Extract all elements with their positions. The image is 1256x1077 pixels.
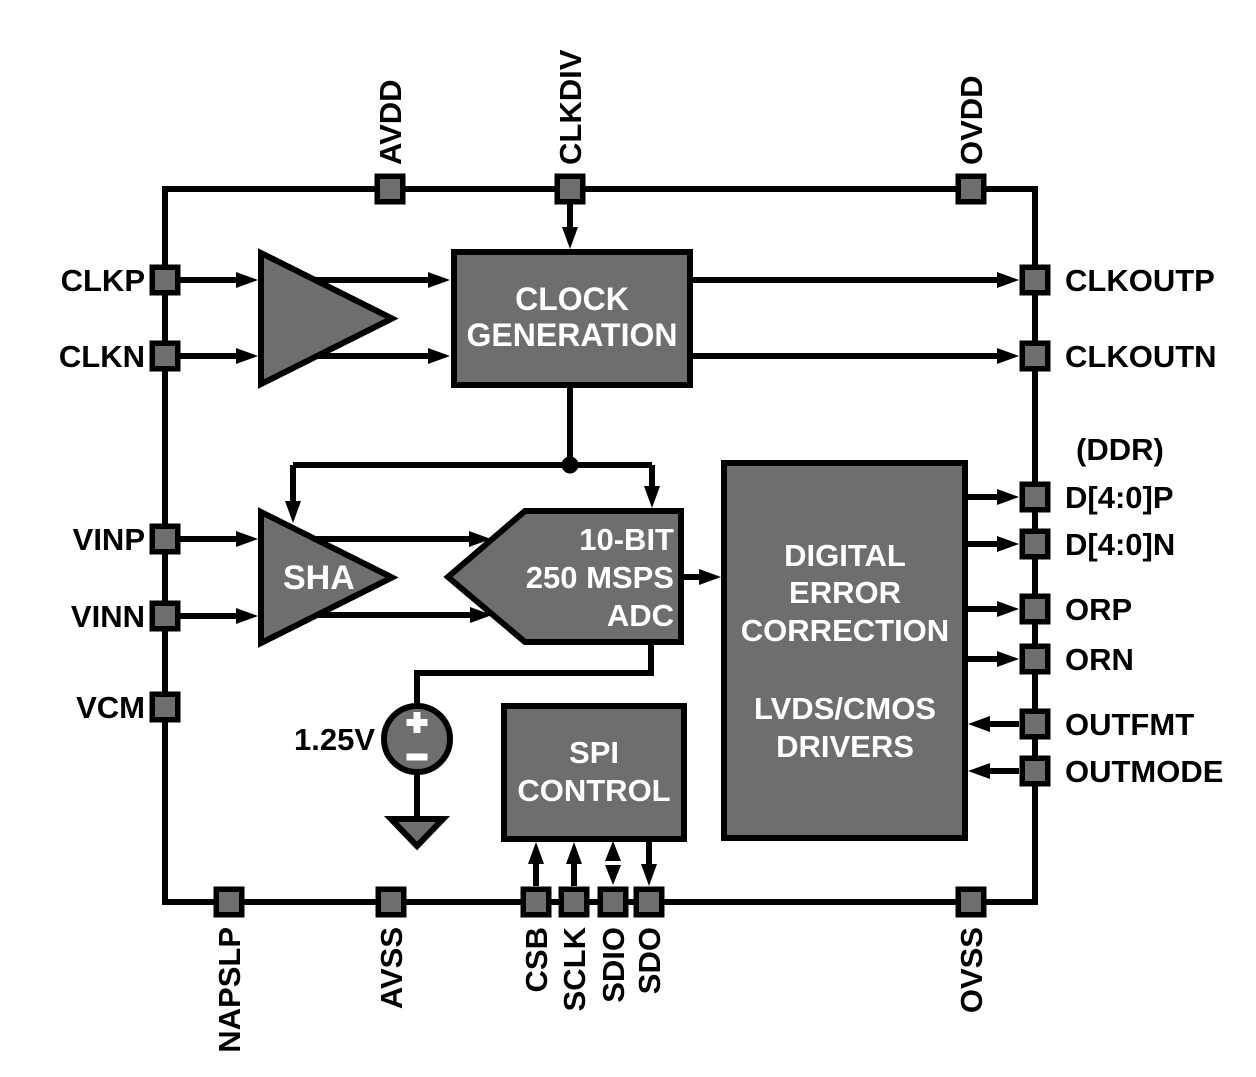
svg-text:AVSS: AVSS [374, 927, 409, 1009]
svg-text:ADC: ADC [607, 598, 674, 633]
pin SCLK [561, 889, 587, 915]
svg-text:CLOCK: CLOCK [515, 281, 629, 317]
svg-text:CLKDIV: CLKDIV [553, 49, 588, 165]
pin ORN [1022, 646, 1048, 672]
wire buffer to CLOCK GENERATION upper [315, 272, 450, 288]
wire DEC to ORP [968, 601, 1019, 617]
pin CLKOUTN [1022, 343, 1048, 369]
svg-text:VINP: VINP [73, 522, 145, 557]
svg-text:OVDD: OVDD [954, 75, 989, 165]
svg-text:CLKOUTN: CLKOUTN [1065, 339, 1217, 374]
svg-text:LVDS/CMOS: LVDS/CMOS [754, 691, 936, 726]
svg-text:CORRECTION: CORRECTION [741, 613, 949, 648]
pin AVDD [377, 176, 403, 202]
svg-text:10-BIT: 10-BIT [579, 522, 674, 557]
pin D[4:0]P [1022, 484, 1048, 510]
svg-text:ORP: ORP [1065, 592, 1132, 627]
svg-text:OUTMODE: OUTMODE [1065, 754, 1223, 789]
clock input buffer amplifier [261, 253, 392, 384]
svg-text:250 MSPS: 250 MSPS [526, 560, 674, 595]
wire DEC to D[4:0]N [968, 536, 1019, 552]
chip outline border [165, 189, 1035, 902]
svg-text:CONTROL: CONTROL [517, 773, 670, 808]
wire ADC to voltage source [417, 642, 651, 707]
svg-text:VCM: VCM [76, 690, 145, 725]
svg-text:D[4:0]N: D[4:0]N [1065, 527, 1175, 562]
svg-text:VINN: VINN [71, 599, 145, 634]
pin CLKDIV [557, 176, 583, 202]
svg-text:SDO: SDO [632, 927, 667, 994]
wire SCLK into SPI CONTROL [566, 842, 582, 886]
wire clock into ADC [644, 465, 660, 508]
svg-text:ERROR: ERROR [789, 575, 901, 610]
amplifier SHA [261, 512, 392, 643]
pin CLKOUTP [1022, 267, 1048, 293]
wire SPI CONTROL to SDO [641, 842, 657, 886]
pin VINN [152, 603, 178, 629]
wire CLKDIV into CLOCK GENERATION [562, 204, 578, 249]
block 10-BIT 250 MSPS ADC [448, 511, 681, 642]
pin CLKN [152, 343, 178, 369]
pin NAPSLP [216, 889, 242, 915]
block CLOCK GENERATION [454, 252, 690, 385]
pin OVSS [958, 889, 984, 915]
svg-text:NAPSLP: NAPSLP [212, 927, 247, 1053]
pin D[4:0]N [1022, 531, 1048, 557]
wire VINP to SHA [178, 531, 258, 547]
wire voltage source to ground [414, 772, 420, 820]
pin OVDD [958, 176, 984, 202]
svg-text:OVSS: OVSS [954, 927, 989, 1013]
wire CLOCK GENERATION to CLKOUTN [690, 348, 1019, 364]
svg-text:CLKP: CLKP [61, 263, 145, 298]
svg-text:SPI: SPI [569, 735, 619, 770]
svg-text:ORN: ORN [1065, 642, 1134, 677]
wire SHA to ADC upper [313, 531, 491, 547]
pin ORP [1022, 596, 1048, 622]
wire VINN to SHA [178, 608, 258, 624]
wire OUTFMT into DEC [968, 716, 1019, 732]
wire DEC to ORN [968, 651, 1019, 667]
wire CLOCK GENERATION to CLKOUTP [690, 272, 1019, 288]
svg-text:AVDD: AVDD [373, 79, 408, 165]
pin AVSS [378, 889, 404, 915]
svg-text:DIGITAL: DIGITAL [784, 538, 906, 573]
voltage source V1 1.25V [384, 706, 450, 772]
wire DEC to D[4:0]P [968, 489, 1019, 505]
svg-text:D[4:0]P: D[4:0]P [1065, 480, 1174, 515]
pin SDO [636, 889, 662, 915]
svg-text:1.25V: 1.25V [294, 722, 375, 757]
svg-text:SHA: SHA [283, 559, 355, 597]
wire ADC to DIGITAL ERROR CORRECTION [684, 569, 721, 585]
wire buffer to CLOCK GENERATION lower [317, 348, 450, 364]
wire clock into SHA [285, 465, 301, 523]
block SPI CONTROL [504, 706, 684, 839]
pin OUTFMT [1022, 711, 1048, 737]
wire CLKN to buffer [178, 348, 258, 364]
svg-text:CLKOUTP: CLKOUTP [1065, 263, 1215, 298]
wire SDIO bidirectional [605, 841, 621, 885]
pin VINP [152, 526, 178, 552]
pin CLKP [152, 267, 178, 293]
svg-text:SCLK: SCLK [557, 926, 592, 1011]
svg-text:CSB: CSB [519, 927, 554, 992]
svg-text:OUTFMT: OUTFMT [1065, 707, 1194, 742]
svg-text:GENERATION: GENERATION [467, 317, 678, 353]
svg-text:DRIVERS: DRIVERS [776, 729, 914, 764]
wire SHA to ADC lower [317, 607, 492, 623]
svg-text:SDIO: SDIO [596, 927, 631, 1003]
pin CSB [523, 889, 549, 915]
svg-text:CLKN: CLKN [59, 339, 145, 374]
pin OUTMODE [1022, 758, 1048, 784]
block DIGITAL ERROR CORRECTION / LVDS-CMOS DRIVERS [724, 463, 965, 838]
wire clock branch horizontal [293, 462, 652, 468]
pin SDIO [600, 889, 626, 915]
wire CLOCK GENERATION clock distribution [567, 385, 573, 465]
junction clock node [562, 457, 579, 474]
wire CLKP to buffer [178, 272, 258, 288]
wire OUTMODE into DEC [968, 763, 1019, 779]
svg-text:(DDR): (DDR) [1076, 432, 1164, 467]
wire CSB into SPI CONTROL [528, 842, 544, 886]
pin VCM [152, 694, 178, 720]
ground [391, 819, 443, 846]
